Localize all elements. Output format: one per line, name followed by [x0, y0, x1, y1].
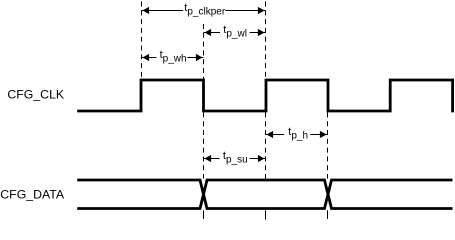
node dashed edge stub below data x=328	[327, 210, 329, 219]
dimension t_p_su	[204, 150, 266, 166]
node dashed edge line at second rising edge x=266 upper	[265, 2, 267, 79]
svg-text:CFG_CLK: CFG_CLK	[7, 88, 65, 102]
dimension t_p_clkper	[142, 2, 266, 18]
dimension t_p_h	[266, 126, 328, 142]
node dashed edge line at first rising edge x=141	[141, 2, 143, 79]
dimension t_p_wh	[142, 49, 204, 65]
node dashed edge line at second falling edge x=328	[327, 112, 329, 178]
node dashed edge stub below data x=203.5	[203, 210, 205, 219]
node dashed edge line at first falling edge x=203.5 upper	[203, 24, 205, 79]
wire CFG_DATA bus rail upper	[77, 180, 452, 209]
wire CFG_DATA bus rail lower	[77, 180, 452, 209]
dimension t_p_wl	[204, 24, 266, 40]
wire CFG_CLK waveform	[77, 80, 452, 112]
svg-text:CFG_DATA: CFG_DATA	[0, 188, 65, 202]
node dashed edge line at second rising edge x=266 lower	[265, 112, 267, 178]
node dashed edge stub below data x=266	[265, 210, 267, 219]
node dashed edge line at first falling edge x=203.5 lower	[203, 112, 205, 178]
